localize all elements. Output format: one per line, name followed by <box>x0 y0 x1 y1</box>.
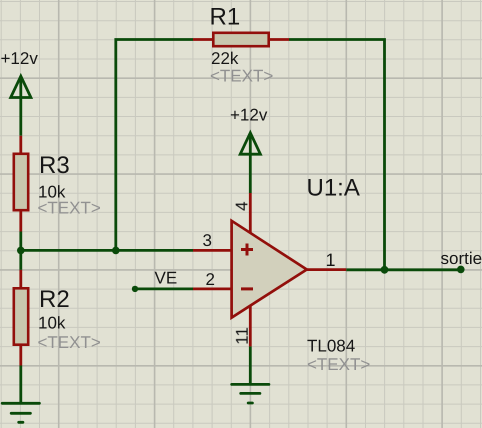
wire R3 bottom to R2 top <box>19 232 22 270</box>
junction node A (R3/R2/pin3) <box>17 247 25 255</box>
svg-text:10k: 10k <box>38 314 66 333</box>
ground left <box>2 403 39 422</box>
junction feedback-left on pin3 net <box>112 247 120 255</box>
svg-text:TL084: TL084 <box>307 337 355 356</box>
wire output to sortie <box>346 268 461 271</box>
svg-text:<TEXT>: <TEXT> <box>210 66 273 85</box>
junction output node <box>381 266 389 274</box>
svg-text:U1:A: U1:A <box>307 175 360 202</box>
power +12v symbol at pin 4 <box>240 133 260 193</box>
svg-text:11: 11 <box>233 327 252 345</box>
wire node A to pin 3 <box>21 249 193 252</box>
svg-text:22k: 22k <box>211 49 239 68</box>
svg-text:+12v: +12v <box>230 106 268 125</box>
node VE terminal dot <box>132 286 138 292</box>
ground at pin 11 <box>232 384 269 403</box>
svg-text:sortie: sortie <box>441 249 482 268</box>
op-amp U1:A <box>193 193 346 346</box>
resistor R3 <box>14 136 28 232</box>
svg-text:<TEXT>: <TEXT> <box>38 199 101 218</box>
svg-text:3: 3 <box>203 231 212 250</box>
svg-text:4: 4 <box>232 201 251 210</box>
wire feedback right (R1 right down to output) <box>289 40 385 270</box>
svg-text:<TEXT>: <TEXT> <box>307 355 370 374</box>
wire net top-left (R1 left to +input node) <box>116 40 193 251</box>
svg-text:R3: R3 <box>39 152 70 179</box>
resistor R2 <box>14 270 28 366</box>
svg-text:2: 2 <box>206 270 215 289</box>
svg-text:<TEXT>: <TEXT> <box>38 333 101 352</box>
resistor R1 <box>193 33 289 46</box>
node sortie terminal dot <box>457 266 465 274</box>
svg-text:1: 1 <box>326 250 336 270</box>
svg-text:R2: R2 <box>39 286 70 313</box>
power +12v symbol left <box>11 76 31 136</box>
wire pin 11 to ground <box>249 346 252 384</box>
svg-text:VE: VE <box>155 269 178 288</box>
wire VE to pin 2 <box>135 287 193 290</box>
wire R2 bottom to ground <box>19 366 22 403</box>
svg-text:R1: R1 <box>210 4 241 31</box>
svg-text:+12v: +12v <box>1 49 39 68</box>
